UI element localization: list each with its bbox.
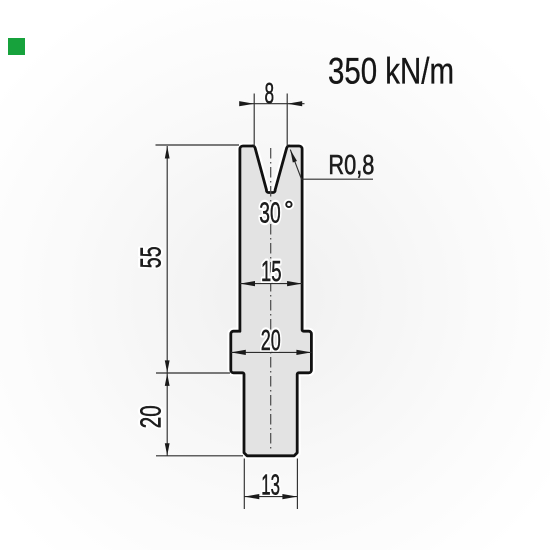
dim 20 (height): extension line <box>156 455 243 457</box>
dim 15: dimension line <box>240 283 302 285</box>
dim 13: dimension line <box>244 496 297 498</box>
dim 20 (collar width): dimension line <box>231 351 312 353</box>
degree symbol <box>286 202 291 207</box>
svg-text:55: 55 <box>135 246 167 268</box>
green color-code square <box>8 38 25 55</box>
die body outline <box>231 146 312 456</box>
svg-text:20: 20 <box>135 405 167 428</box>
centerline <box>270 148 272 449</box>
svg-text:350 kN/m: 350 kN/m <box>328 51 454 92</box>
dim 8: dimension line <box>240 103 305 105</box>
R0,8 leader line <box>290 150 373 180</box>
svg-text:30: 30 <box>259 197 280 229</box>
dim 8: extension lines <box>253 94 255 147</box>
svg-text:8: 8 <box>265 78 275 110</box>
dim 55: dimension line <box>166 146 168 373</box>
dim 55: extension lines <box>156 144 240 146</box>
svg-text:R0,8: R0,8 <box>328 149 374 180</box>
dim 13: extension lines <box>243 459 245 510</box>
dim 20 (height): dimension line <box>166 373 168 455</box>
